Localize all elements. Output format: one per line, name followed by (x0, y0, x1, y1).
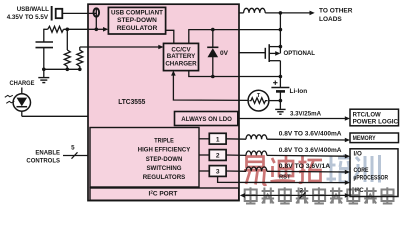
node gnd junctions (42, 68, 46, 72)
wire enable bus (63, 155, 88, 157)
watermark blue char 4 (327, 155, 352, 183)
svg-text:STEP-DOWN: STEP-DOWN (117, 17, 157, 24)
inductor L1 (246, 135, 267, 139)
bus slash 2 (300, 192, 306, 198)
svg-text:CORE: CORE (354, 167, 369, 174)
box I2C port strip (90, 188, 239, 200)
box microprocessor (350, 149, 398, 197)
svg-text:USB COMPLIANT: USB COMPLIANT (111, 10, 163, 17)
wire LED to CHRG pin (22, 115, 88, 117)
capacitor input (43, 29, 45, 42)
wire USB reg out to charger (166, 30, 174, 43)
wire regulator 2 output (199, 154, 209, 156)
pin box 3 (209, 166, 226, 177)
svg-text:2: 2 (216, 153, 220, 160)
wire I2C bus (243, 194, 347, 196)
svg-text:0V: 0V (220, 50, 229, 57)
svg-text:5: 5 (71, 145, 75, 152)
wire charger to VOUT rail (189, 30, 281, 44)
svg-text:3: 3 (216, 169, 220, 176)
resistor divider R-left (66, 29, 68, 50)
svg-text:4.35V TO 5.5V: 4.35V TO 5.5V (7, 14, 49, 21)
node resistor junction (66, 28, 70, 32)
watermark blue char 5 (354, 155, 380, 183)
pin box 2 (209, 150, 226, 161)
wire regulator 1 output (199, 138, 209, 140)
svg-text:USB/WALL: USB/WALL (17, 6, 49, 13)
wire charger to BAT (189, 71, 281, 77)
svg-text:µPROCESSOR: µPROCESSOR (354, 174, 389, 181)
box USB compliant step-down regulator (108, 7, 165, 34)
wire CLPROG to charger (80, 46, 160, 48)
svg-text:I2C PORT: I2C PORT (149, 190, 178, 198)
svg-text:LTC3555: LTC3555 (118, 97, 145, 106)
svg-text:I2C: I2C (355, 186, 364, 194)
wire ground rail (44, 68, 80, 70)
node FET drain (279, 45, 283, 49)
svg-text:ENABLE: ENABLE (35, 149, 60, 156)
inductor L2 (246, 151, 267, 155)
wire VOUT vertical (279, 13, 281, 54)
wire VBUS drop (95, 8, 97, 29)
box fill microprocessor (350, 149, 398, 197)
svg-text:2: 2 (300, 188, 304, 195)
svg-text:CHARGER: CHARGER (165, 60, 197, 67)
svg-text:1: 1 (216, 136, 220, 143)
svg-text:POWER LOGIC: POWER LOGIC (353, 118, 399, 125)
node diode bottom (211, 75, 215, 79)
svg-text:TO OTHER: TO OTHER (319, 7, 353, 14)
inductor L3 (246, 167, 267, 171)
wire VBUS lower rail (44, 28, 48, 30)
node VOUT rail (279, 28, 283, 32)
svg-text:CHARGE: CHARGE (10, 80, 36, 87)
watermark red char 1 (244, 157, 267, 185)
battery Li-Ion (279, 77, 281, 88)
svg-text:TRIPLE: TRIPLE (154, 137, 174, 144)
watermark red char 2 (271, 156, 296, 182)
node BAT (279, 75, 283, 79)
node ideal diode top (211, 28, 215, 32)
box fill memory (350, 133, 399, 143)
svg-text:STEP-DOWN: STEP-DOWN (146, 156, 183, 163)
box RTC/low power logic (350, 109, 399, 126)
wire NTC arrow up into charger (171, 71, 176, 76)
watermark red char 3 (299, 156, 323, 183)
svg-text:REGULATORS: REGULATORS (143, 174, 186, 181)
wire regulator 3 output (199, 170, 209, 172)
ideal diode 0V (212, 30, 214, 48)
transistor PMOS optional (264, 48, 266, 59)
box CC/CV battery charger (164, 43, 199, 70)
svg-text:I/O: I/O (354, 151, 362, 158)
svg-text:SWITCHING: SWITCHING (146, 165, 181, 172)
node VOUT (279, 11, 283, 15)
svg-text:HIGH EFFICIENCY: HIGH EFFICIENCY (138, 147, 191, 154)
svg-text:CONTROLS: CONTROLS (26, 157, 60, 164)
svg-text:ALWAYS ON LDO: ALWAYS ON LDO (181, 116, 232, 123)
LED charge indicator (21, 88, 23, 95)
wire SW to inductor (239, 12, 244, 14)
svg-text:0.8V TO 3.6V/400mA: 0.8V TO 3.6V/400mA (279, 147, 342, 154)
svg-text:OPTIONAL: OPTIONAL (284, 50, 316, 57)
box memory (350, 133, 399, 143)
wire VOUT to loads (265, 12, 310, 14)
wire arrow into USB regulator (96, 28, 104, 30)
wire gate control (239, 52, 265, 54)
battery plus sign (273, 82, 277, 84)
pin box 1 (209, 133, 226, 144)
resistor CLPROG (77, 47, 83, 69)
IC block LTC3555 (88, 4, 239, 200)
svg-text:0.8V TO 3.6V/400mA: 0.8V TO 3.6V/400mA (279, 131, 342, 138)
svg-text:RST: RST (279, 174, 291, 180)
svg-text:0.8V TO 3.6V/1A: 0.8V TO 3.6V/1A (279, 163, 331, 170)
box always-on LDO (175, 112, 238, 126)
svg-text:REGULATOR: REGULATOR (117, 25, 158, 32)
bus slash 5 (72, 152, 78, 158)
node VBUS junction (95, 28, 99, 32)
svg-text:Li-Ion: Li-Ion (290, 88, 308, 95)
wire RST to microprocessor (218, 176, 347, 182)
fuse oval at VBUS pin (94, 8, 100, 16)
resistor input sense (48, 26, 64, 32)
svg-text:MEMORY: MEMORY (353, 135, 377, 142)
thermistor (248, 90, 269, 111)
inductor main (244, 8, 266, 13)
ground battery (279, 101, 281, 109)
svg-text:BATTERY: BATTERY (167, 53, 196, 60)
wire thermistor to BAT gnd (269, 100, 281, 102)
connector USB/wall plug (51, 6, 53, 21)
svg-text:LOADS: LOADS (319, 16, 342, 23)
svg-text:3.3V/25mA: 3.3V/25mA (290, 110, 322, 117)
wire VBUS top (63, 12, 96, 14)
box triple step-down switching regulators (90, 128, 199, 188)
LED light arrows (5, 95, 13, 97)
ground input (43, 69, 45, 77)
box fill RTC/low power logic (350, 109, 399, 126)
wire LDO output (239, 118, 347, 120)
node battery minus (279, 99, 283, 103)
